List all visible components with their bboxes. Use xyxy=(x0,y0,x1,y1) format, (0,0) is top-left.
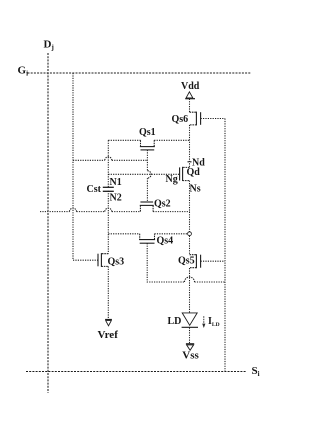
wire: Qs4 right lead to main line junction xyxy=(155,233,188,235)
wire: Qs4 left lead from line A xyxy=(108,233,139,235)
junction circle at Qs4 drain / main line xyxy=(188,232,192,236)
capacitor Cst xyxy=(103,187,114,191)
hop arc of y160 wire over line A xyxy=(105,157,112,160)
svg-text:Dj: Dj xyxy=(44,39,54,52)
wire: Qs3 source down to Vref xyxy=(107,266,109,319)
wire: LD cathode to Vss xyxy=(189,328,191,344)
svg-text:Qs2: Qs2 xyxy=(154,199,171,210)
transistor Qs4 xyxy=(139,234,155,243)
svg-text:Qs3: Qs3 xyxy=(108,257,125,268)
transistor Qs5 xyxy=(190,254,201,268)
transistor Qs1 xyxy=(140,140,155,150)
svg-text:Gi: Gi xyxy=(18,65,29,78)
wire: node N2 vertical (Cst bottom to Qs3 drain) xyxy=(107,191,109,254)
hop arc of y211 wire over x73 xyxy=(70,208,77,212)
transistor Qs6 xyxy=(190,112,201,126)
wire: Qs2 right lead to Ns xyxy=(153,211,189,213)
svg-text:Qs6: Qs6 xyxy=(172,114,189,125)
power symbol Vdd (up arrow) xyxy=(185,92,195,99)
hop arc of Qs4 gate wire over main line xyxy=(185,277,195,282)
wire: gate link Qs1-Qs2 with hop over Ng wire xyxy=(146,150,148,171)
wire: Qs4 gate down then right to x225 with hop over main line xyxy=(147,243,225,282)
svg-text:Si: Si xyxy=(252,365,260,378)
svg-text:Ng: Ng xyxy=(166,174,178,185)
wire: vertical from Gi down to Qs3 gate xyxy=(72,73,74,260)
svg-text:Qs5: Qs5 xyxy=(178,256,195,267)
wire: Qs6 gate wire to x225 xyxy=(201,118,225,120)
svg-text:ILD: ILD xyxy=(208,316,220,328)
wire: Qs5 gate wire to x225 xyxy=(201,260,225,262)
wire: main column Qs5 to LD xyxy=(189,268,191,313)
wire: data line Dj vertical xyxy=(47,53,49,393)
svg-text:Cst: Cst xyxy=(87,184,102,195)
wire: data row y211.6 from Dj to Qs2 with two hops xyxy=(40,211,140,213)
wire: right gate bus x=225 from Qs6 gate to Si xyxy=(224,119,226,372)
transistor Qs2 xyxy=(140,202,154,212)
wire: gate row y160 from x73 to gate link, hop over line A xyxy=(73,159,147,161)
svg-text:Vss: Vss xyxy=(182,350,199,362)
transistor Qd (drive) xyxy=(180,167,190,181)
wire: N1 horizontal to Qs1 left lead xyxy=(108,139,140,141)
svg-text:N2: N2 xyxy=(110,193,122,204)
power symbol Vref (down arrow) xyxy=(105,320,112,326)
wire: main column Vdd to Qs6 xyxy=(189,99,191,112)
svg-text:Qd: Qd xyxy=(187,167,201,178)
wire: Qs3 gate wire from x73 xyxy=(73,259,98,261)
tick mark under Nd label xyxy=(188,161,193,163)
wire: main column Qs6 to Qd (node Nd) xyxy=(189,125,191,167)
svg-text:Ns: Ns xyxy=(190,184,201,195)
laser diode LD xyxy=(182,313,198,327)
current arrow ILD xyxy=(202,316,205,328)
power symbol Vss (down arrow) xyxy=(186,344,194,351)
wire: node N1 vertical (line A top: to Cst top plate) xyxy=(107,140,109,187)
svg-text:LD: LD xyxy=(168,316,182,327)
hop arc of y211 wire over line A xyxy=(105,208,112,212)
wire: select line Si horizontal (bottom) xyxy=(26,371,246,373)
svg-text:Vdd: Vdd xyxy=(181,81,200,92)
svg-text:Qs4: Qs4 xyxy=(157,236,174,247)
wire: Ng horizontal from line A to Qd gate xyxy=(108,173,179,175)
wire: Qs1 right lead to Nd xyxy=(154,139,189,141)
svg-text:N1: N1 xyxy=(110,177,122,188)
transistor Qs3 xyxy=(98,253,108,267)
wire: gate line Gi horizontal xyxy=(28,72,251,74)
svg-text:Vref: Vref xyxy=(98,329,119,341)
svg-text:Qs1: Qs1 xyxy=(139,127,156,138)
wire: main column Qd to Qs5 (node Ns) xyxy=(189,181,191,255)
